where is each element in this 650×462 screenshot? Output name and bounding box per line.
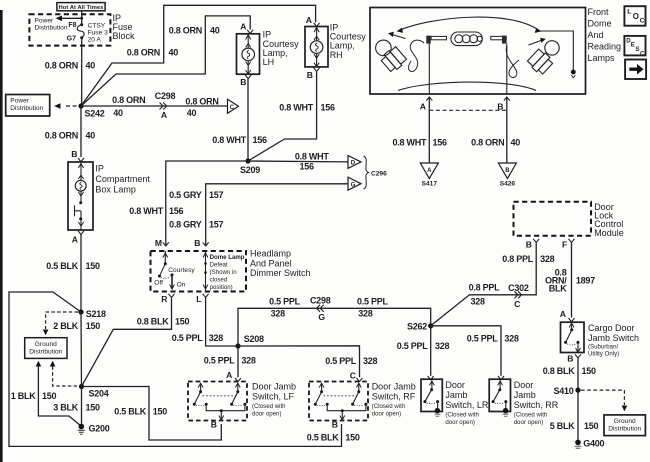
svg-text:B: B (307, 70, 313, 80)
pin B of dimmer switch (194, 238, 208, 248)
dashed wire S242 to Power Distribution (54, 103, 78, 109)
Power Distribution box (6, 95, 50, 117)
DESC legend box (624, 36, 645, 57)
Door Jamb Switch LR (421, 379, 442, 411)
wire label 0.8 PPL 328 (module B) (502, 254, 554, 264)
wire label 0.5 PPL 328 (467, 334, 519, 344)
svg-text:0.8 ORN: 0.8 ORN (45, 61, 78, 71)
svg-text:0.5 GRY: 0.5 GRY (169, 190, 202, 200)
svg-text:door open): door open) (445, 419, 474, 426)
svg-text:0.8 PPL: 0.8 PPL (469, 283, 501, 293)
svg-text:S209: S209 (240, 165, 260, 175)
svg-text:door open): door open) (514, 419, 543, 426)
wire fuse to S242 (81, 38, 83, 106)
wire label 0.8 WHT 156 (279, 103, 335, 113)
svg-text:0.8 PPL: 0.8 PPL (502, 254, 534, 264)
wire label 1 BLK 150 (11, 391, 57, 401)
svg-text:Box Lamp: Box Lamp (95, 184, 136, 194)
wire S209 to triangle D (248, 160, 348, 163)
Cargo Door Jamb Switch (561, 322, 640, 357)
wire label 0.5 PPL 328 (172, 333, 223, 343)
svg-text:328: 328 (209, 333, 224, 343)
node S262 (407, 321, 433, 331)
wire label 0.8 WHT 156 (129, 206, 183, 216)
svg-text:40: 40 (86, 130, 96, 140)
wire dimmer L to S208 (206, 298, 238, 347)
pin A of dome lamp assembly (420, 97, 433, 112)
svg-text:150: 150 (86, 321, 101, 331)
wire label 5 BLK 150 (550, 421, 599, 431)
wire label 0.8 WHT 156 (295, 152, 330, 172)
pin B of IP Courtesy Lamp RH (307, 68, 320, 80)
svg-text:S410: S410 (553, 386, 573, 396)
svg-text:L: L (627, 9, 631, 16)
fuse CTSY Fuse 3 20 A (77, 22, 108, 43)
svg-text:C: C (350, 370, 356, 380)
pin A of IP Courtesy Lamp LH (240, 22, 253, 34)
svg-text:G7: G7 (67, 35, 76, 42)
svg-text:C296: C296 (371, 171, 387, 178)
bottom arc (398, 82, 536, 90)
wire S218 to S204 (80, 312, 83, 387)
triangle connector D (348, 156, 361, 169)
label Door Lock Control Module (594, 202, 624, 238)
junction (80, 17, 83, 20)
svg-text:R: R (161, 294, 168, 304)
svg-text:S242: S242 (85, 109, 105, 119)
svg-text:156: 156 (253, 135, 268, 145)
svg-text:328: 328 (504, 334, 519, 344)
svg-text:Dome Lamp: Dome Lamp (210, 254, 245, 261)
node S208 (235, 334, 264, 349)
pin of door jamb LR (428, 376, 434, 380)
wire S262 to door jamb RR (431, 326, 501, 376)
label Door Jamb Switch RR (514, 380, 559, 426)
pin B of dome lamp assembly (497, 97, 510, 112)
wire label 0.8 GRY 157 (169, 220, 223, 230)
IP Courtesy Lamp RH (305, 22, 366, 67)
svg-text:O: O (633, 12, 639, 21)
wire LH lamp B to S209 (247, 79, 249, 161)
svg-text:157: 157 (209, 190, 224, 200)
svg-text:C: C (514, 299, 520, 309)
svg-text:Hot At All Times: Hot At All Times (59, 5, 105, 11)
svg-text:150: 150 (86, 402, 101, 412)
svg-text:CTSY: CTSY (88, 22, 106, 29)
svg-text:150: 150 (175, 317, 190, 327)
wire label 0.5 PPL 328 (right of C298) (357, 297, 389, 319)
svg-text:B: B (505, 167, 510, 174)
svg-text:On: On (177, 281, 186, 288)
connector C296 brace (364, 156, 388, 189)
arrow legend box (625, 60, 646, 80)
svg-text:0.5 PPL: 0.5 PPL (325, 356, 357, 366)
pin A of IP Courtesy Lamp RH (306, 15, 320, 27)
wire label 0.8 ORN/BLK 1897 (545, 267, 595, 293)
svg-text:G: G (351, 182, 356, 189)
svg-text:150: 150 (42, 391, 57, 401)
wire A to S417 (428, 97, 430, 163)
page edge bar (0, 10, 3, 462)
svg-text:Dome: Dome (588, 19, 612, 29)
label Door Jamb Switch LF (252, 382, 296, 418)
svg-text:A: A (427, 167, 432, 174)
right reading lamp bulb (526, 41, 559, 76)
wire from Hot At All Times to fuse (81, 11, 83, 24)
pin C of door jamb RF (350, 370, 363, 381)
wire S242 to LH lamp (diagonal, inner run) (81, 16, 250, 106)
wire label 0.5 PPL 328 (204, 356, 256, 366)
pin A of cargo switch (560, 309, 575, 322)
svg-text:157: 157 (209, 220, 224, 230)
pin L of dimmer switch (196, 294, 208, 304)
svg-text:0.8 WHT: 0.8 WHT (212, 135, 247, 145)
svg-text:S218: S218 (86, 309, 106, 319)
wire label 0.5 GRY 157 (169, 190, 223, 200)
node S209 (240, 158, 260, 175)
svg-text:(Closed with: (Closed with (372, 403, 406, 410)
svg-text:328: 328 (363, 356, 378, 366)
svg-text:C: C (640, 18, 645, 25)
wire label 0.8 ORN 40 (right of C298) (185, 97, 218, 118)
svg-text:Door: Door (514, 380, 534, 390)
courtesy switch (dimmer) (154, 251, 195, 289)
wire S208 to door jamb LF pin A (237, 346, 239, 377)
svg-text:C: C (230, 104, 235, 111)
pin B of IP Courtesy Lamp LH (240, 75, 251, 87)
wire label 0.8 ORN 40 (127, 47, 179, 57)
svg-text:20 A: 20 A (88, 36, 102, 43)
svg-text:328: 328 (358, 308, 373, 318)
svg-text:0.8 ORN: 0.8 ORN (112, 95, 145, 105)
wire label 0.8 ORN 40 (471, 138, 520, 148)
svg-text:A: A (226, 370, 232, 380)
Door Jamb Switch LF (188, 382, 247, 421)
power distribution reference text (in fuse block) (35, 17, 68, 31)
wire label 0.8 BLK 150 (543, 366, 596, 376)
wire S242 to RH lamp (diagonal, top run) (81, 5, 316, 106)
pin M of dimmer switch (155, 238, 169, 248)
svg-text:0.8 ORN: 0.8 ORN (127, 47, 160, 57)
left lamp wire squiggle (409, 40, 424, 71)
wire S208 to S262 (238, 308, 431, 346)
svg-text:150: 150 (345, 432, 360, 442)
svg-text:E: E (631, 42, 635, 49)
wire to triangle G (dome defeat) (206, 184, 348, 246)
svg-text:B: B (567, 354, 573, 364)
svg-text:A: A (240, 22, 246, 32)
wire door jamb return up left side to S218 (9, 292, 342, 446)
svg-text:A: A (420, 102, 426, 112)
svg-text:40: 40 (210, 25, 220, 35)
IP Compartment Box Lamp (68, 162, 150, 230)
pin F of module (562, 239, 574, 250)
pin A of IP Compartment Box Lamp (72, 231, 84, 245)
wire S208 to door jamb RF pin C (238, 346, 360, 378)
svg-text:0.5 PPL: 0.5 PPL (204, 356, 236, 366)
LOC legend box (624, 6, 645, 26)
svg-text:Switch, LR: Switch, LR (445, 400, 489, 410)
svg-text:L: L (196, 294, 201, 304)
svg-text:M: M (155, 238, 162, 248)
wire S262 to C302 and module B (431, 243, 537, 326)
svg-text:F8: F8 (68, 22, 76, 29)
wire cargo B to S410 (577, 358, 579, 390)
dashed link between A and B pins (429, 109, 507, 111)
svg-text:0.8 ORN: 0.8 ORN (169, 25, 202, 35)
svg-text:Power: Power (10, 98, 29, 105)
svg-text:40: 40 (86, 61, 96, 71)
svg-text:G: G (318, 312, 325, 322)
svg-text:Utility Only): Utility Only) (588, 351, 619, 358)
svg-text:Jamb: Jamb (514, 390, 536, 400)
svg-text:0.5 BLK: 0.5 BLK (46, 261, 79, 271)
svg-text:F: F (562, 240, 567, 250)
node S218 (78, 309, 106, 319)
label Hot At All Times (57, 3, 105, 12)
svg-text:3 BLK: 3 BLK (53, 402, 79, 412)
svg-text:Compartment: Compartment (95, 174, 150, 184)
svg-text:Dimmer Switch: Dimmer Switch (250, 268, 311, 278)
svg-text:0.5 PPL: 0.5 PPL (269, 297, 301, 307)
ground G200 (78, 424, 110, 435)
svg-text:40: 40 (169, 47, 179, 57)
svg-text:150: 150 (582, 366, 597, 376)
svg-text:G400: G400 (583, 439, 604, 449)
wire label 0.8 WHT 156 (212, 135, 267, 145)
svg-text:Switch, RR: Switch, RR (514, 400, 559, 410)
wire label 0.8 WHT 156 (393, 138, 447, 148)
svg-text:Power: Power (35, 17, 54, 24)
wire label 0.5 BLK 150 (114, 406, 167, 416)
svg-text:(Closed with: (Closed with (445, 412, 479, 419)
svg-text:B: B (332, 420, 338, 430)
svg-text:Jamb Switch: Jamb Switch (588, 333, 639, 343)
svg-text:S426: S426 (500, 181, 516, 188)
wire S262 to door jamb LR (430, 326, 432, 376)
svg-text:0.8 BLK: 0.8 BLK (543, 366, 576, 376)
label Door Jamb Switch LR (445, 380, 489, 426)
wire label 0.5 BLK 150 (46, 261, 100, 271)
wire label 3 BLK 150 (53, 402, 100, 412)
wire label 0.8 ORN 40 (112, 95, 145, 118)
svg-text:A: A (306, 15, 312, 25)
svg-text:Lamps: Lamps (588, 53, 616, 63)
pin B of module (526, 239, 539, 250)
svg-text:328: 328 (241, 356, 256, 366)
svg-text:0.8 BLK: 0.8 BLK (137, 317, 170, 327)
svg-text:Courtesy: Courtesy (168, 267, 195, 274)
svg-text:LH: LH (263, 57, 275, 67)
pin of door jamb RR (498, 376, 504, 380)
node S204 (79, 384, 109, 398)
svg-text:Distribution: Distribution (608, 426, 641, 433)
arrow to Power Distribution (56, 16, 82, 22)
svg-text:RH: RH (330, 50, 343, 60)
svg-text:Switch, LF: Switch, LF (252, 392, 295, 402)
svg-text:Cargo Door: Cargo Door (588, 323, 635, 333)
svg-text:B: B (194, 238, 200, 248)
svg-text:(Suburban/: (Suburban/ (588, 343, 618, 350)
svg-text:A: A (560, 309, 566, 319)
left lamp connector (426, 36, 446, 95)
wire module F to cargo switch A (571, 243, 573, 318)
wire S410 to G400 (577, 390, 579, 442)
center dome lamp (451, 32, 482, 46)
wire label 0.8 ORN 40 (45, 61, 96, 71)
svg-text:0.8 GRY: 0.8 GRY (169, 220, 202, 230)
svg-text:Headlamp: Headlamp (250, 249, 291, 259)
wire S242 right to connector C (81, 105, 228, 107)
svg-text:position): position) (210, 284, 233, 291)
right lamp connector (491, 36, 507, 95)
pin B of IP Compartment Box Lamp (71, 149, 84, 162)
ground G400 (575, 439, 605, 449)
wire label 0.5 PPL 328 (325, 356, 377, 366)
Ground Distribution box (right) (604, 415, 645, 436)
wire S209 left to M (166, 161, 248, 246)
svg-text:Distribution: Distribution (10, 105, 43, 112)
node S410 (553, 386, 580, 396)
svg-text:156: 156 (433, 138, 448, 148)
svg-text:C: C (640, 50, 645, 57)
svg-text:2 BLK: 2 BLK (53, 321, 79, 331)
svg-text:door open): door open) (372, 410, 401, 417)
svg-text:Switch, RF: Switch, RF (372, 392, 416, 402)
svg-text:Block: Block (113, 31, 136, 41)
svg-text:156: 156 (300, 161, 315, 171)
triangle connector G (348, 177, 361, 190)
svg-text:328: 328 (271, 308, 286, 318)
svg-text:A: A (161, 110, 167, 120)
svg-text:Distribution: Distribution (35, 24, 68, 31)
svg-text:328: 328 (471, 297, 486, 307)
wire label 0.8 PPL 328 (at C302) (469, 283, 501, 307)
IP Courtesy Lamp LH (237, 30, 300, 75)
dashed reference S218 to Ground Distribution (43, 312, 78, 335)
svg-text:40: 40 (187, 108, 197, 118)
svg-text:0.8 ORN: 0.8 ORN (185, 97, 218, 107)
left arrow (388, 32, 406, 39)
svg-text:S: S (635, 46, 639, 53)
svg-text:(Closed with: (Closed with (514, 412, 548, 419)
svg-text:0.5 PPL: 0.5 PPL (172, 333, 204, 343)
svg-text:40: 40 (113, 108, 123, 118)
svg-text:0.8 WHT: 0.8 WHT (129, 206, 164, 216)
pin R of dimmer switch (161, 294, 174, 304)
svg-text:Off: Off (154, 279, 163, 286)
svg-text:150: 150 (153, 406, 168, 416)
svg-text:1 BLK: 1 BLK (11, 391, 37, 401)
svg-text:156: 156 (321, 103, 336, 113)
node S242 (78, 103, 104, 118)
svg-text:C298: C298 (310, 296, 331, 306)
svg-text:B: B (526, 240, 532, 250)
svg-text:S208: S208 (244, 334, 264, 344)
svg-text:Ground: Ground (35, 341, 57, 348)
right lamp wire squiggle (506, 46, 519, 78)
left reading lamp bulb (376, 40, 408, 73)
connector C302 pin C (508, 283, 529, 309)
svg-text:Jamb: Jamb (445, 390, 467, 400)
svg-text:A: A (72, 235, 78, 245)
pin A of door jamb LF (226, 370, 241, 382)
svg-text:(Closed with: (Closed with (252, 403, 286, 410)
svg-text:40: 40 (511, 138, 521, 148)
svg-text:closed: closed (210, 276, 228, 283)
svg-text:B: B (240, 77, 246, 87)
Door Jamb Switch RR (489, 379, 510, 411)
svg-text:328: 328 (435, 341, 450, 351)
reference arrow from 1 BLK wire into Ground Distribution (36, 361, 81, 426)
label IP Fuse Block (113, 13, 136, 41)
wire S204 diagonal to dimmer switch R (82, 297, 172, 387)
svg-text:156: 156 (169, 206, 184, 216)
wire label 0.5 BLK 150 (RF return) (307, 432, 360, 442)
svg-text:S204: S204 (89, 388, 109, 398)
Ground Distribution box (25, 338, 67, 359)
wire label 0.5 PPL 328 (left of C298) (269, 297, 301, 319)
wire lamp A to S218 (80, 235, 82, 313)
svg-text:Defeat: Defeat (210, 261, 228, 268)
svg-text:Front: Front (588, 7, 610, 17)
svg-text:Distribution: Distribution (29, 349, 62, 356)
wire label 0.8 ORN 40 (169, 25, 220, 35)
svg-text:0.8 ORN: 0.8 ORN (45, 130, 78, 140)
svg-text:D: D (351, 160, 356, 167)
svg-text:And Panel: And Panel (250, 258, 292, 268)
svg-text:0.8 WHT: 0.8 WHT (279, 103, 314, 113)
wire label 0.8 ORN 40 (45, 130, 96, 140)
svg-text:Door Jamb: Door Jamb (372, 382, 416, 392)
svg-text:328: 328 (540, 254, 555, 264)
dashed reference S410 to Ground Distribution (581, 390, 627, 411)
label Headlamp And Panel Dimmer Switch (250, 249, 311, 278)
IP Fuse Block dashed box (29, 14, 110, 45)
right arrow (529, 38, 546, 45)
svg-text:BLK: BLK (549, 283, 567, 293)
wire label 0.8 BLK 150 (137, 317, 190, 327)
svg-text:S262: S262 (407, 321, 427, 331)
svg-text:C298: C298 (155, 91, 176, 101)
svg-text:0.5 PPL: 0.5 PPL (397, 341, 429, 351)
top arc wire (397, 17, 576, 78)
dashed reference S204 to Ground Distribution (50, 361, 78, 386)
Front Dome And Reading Lamps pictorial box (370, 8, 586, 95)
svg-text:0.5 BLK: 0.5 BLK (307, 432, 340, 442)
wire label 0.5 PPL 328 (397, 341, 450, 351)
svg-text:And: And (588, 30, 604, 40)
svg-text:(Shown in: (Shown in (210, 269, 237, 276)
svg-text:Door: Door (445, 380, 465, 390)
svg-text:Ground: Ground (614, 418, 636, 425)
wire S204 to G200 (81, 387, 83, 427)
svg-text:0.8 WHT: 0.8 WHT (393, 138, 428, 148)
svg-text:0.8 WHT: 0.8 WHT (295, 152, 330, 162)
svg-text:S417: S417 (422, 181, 438, 188)
wire S204 to door jamb LF pin B (82, 387, 222, 441)
pin B of cargo switch (567, 354, 581, 364)
wire B to S426 (506, 97, 508, 163)
svg-text:Fuse 3: Fuse 3 (88, 29, 108, 36)
svg-text:150: 150 (86, 261, 101, 271)
triangle connector C (228, 99, 239, 113)
svg-text:B: B (71, 149, 77, 159)
wire label 2 BLK 150 (53, 321, 100, 331)
svg-text:IP: IP (95, 164, 104, 174)
svg-text:0.8 ORN: 0.8 ORN (471, 138, 504, 148)
splice symbol S417 (420, 163, 438, 188)
